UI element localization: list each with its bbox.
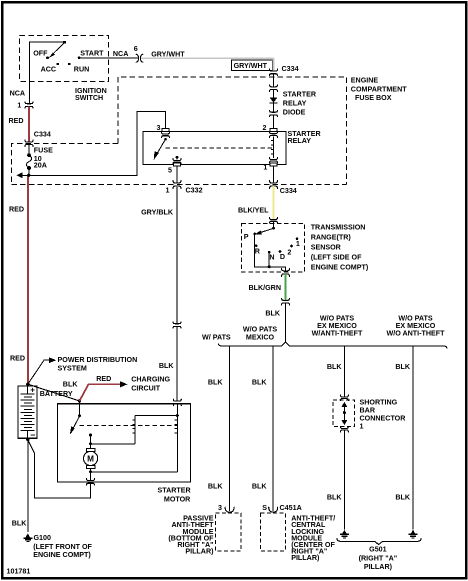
wire branch 3 upper	[327, 346, 345, 397]
ignition switch	[20, 35, 139, 103]
svg-text:BLK/YEL: BLK/YEL	[238, 206, 269, 214]
passive anti-theft module	[215, 513, 241, 551]
svg-text:RUN: RUN	[74, 66, 89, 74]
hold-in winding	[175, 404, 179, 472]
svg-text:2: 2	[287, 248, 291, 256]
wire diode to relay pin 2	[273, 115, 275, 129]
svg-text:G100: G100	[34, 534, 51, 542]
svg-text:CONNECTOR: CONNECTOR	[360, 415, 407, 423]
svg-text:OFF: OFF	[33, 50, 48, 58]
connector pin 3 passive module	[218, 504, 234, 512]
relay contact lever	[154, 138, 167, 160]
label passive anti-theft module	[168, 515, 214, 556]
label starter relay diode	[283, 91, 317, 117]
wire battery feed into solenoid	[79, 399, 81, 416]
wire relay pin1 to C334 bottom	[273, 166, 275, 183]
label TR sensor positions	[244, 233, 300, 261]
svg-text:SHORTING: SHORTING	[360, 398, 398, 406]
wire BLK/YEL	[238, 186, 274, 219]
starter relay box	[143, 132, 286, 165]
connector pin S C451A	[262, 504, 302, 512]
svg-text:BLK: BLK	[12, 519, 28, 527]
relay pin 5 pad	[168, 163, 180, 174]
svg-text:R: R	[255, 248, 261, 256]
svg-text:1: 1	[166, 186, 170, 194]
connector C334 left	[25, 130, 51, 146]
mechanical linkage dashed	[80, 425, 178, 427]
label ground G100	[33, 534, 92, 559]
svg-text:5: 5	[168, 166, 172, 174]
svg-text:SYSTEM: SYSTEM	[58, 364, 87, 372]
label shorting bar connector	[360, 398, 407, 430]
svg-text:RANGE(TR): RANGE(TR)	[311, 234, 352, 242]
svg-text:STARTER: STARTER	[158, 486, 192, 494]
svg-text:PILLAR): PILLAR)	[291, 554, 320, 562]
label anti-theft central locking module	[291, 515, 335, 562]
wire BLK/GRN	[248, 274, 285, 300]
svg-text:GRY/WHT: GRY/WHT	[234, 62, 268, 70]
svg-text:CHARGING: CHARGING	[131, 376, 170, 384]
wire relay pin 5 to C332	[176, 166, 178, 183]
footer number	[7, 567, 31, 575]
engine compartment fuse box	[12, 77, 347, 184]
label starter relay	[288, 130, 322, 145]
arrow power distribution system	[49, 356, 137, 372]
svg-text:1: 1	[263, 164, 267, 172]
svg-text:BLK: BLK	[208, 379, 224, 387]
connector inline GRY/BLK	[173, 322, 181, 328]
shorting bar connector	[333, 400, 354, 426]
svg-text:RELAY: RELAY	[288, 137, 312, 145]
svg-text:3: 3	[157, 124, 161, 132]
svg-text:C334: C334	[282, 65, 299, 73]
svg-text:BLK: BLK	[159, 362, 175, 370]
svg-text:BLK: BLK	[63, 380, 79, 388]
wire GRY/WHT horizontal	[141, 51, 274, 59]
ground G501 right	[409, 530, 418, 539]
label ignition switch	[33, 50, 107, 102]
battery	[18, 386, 37, 438]
wire C334 to diode	[273, 74, 275, 87]
wire RED charging circuit	[80, 375, 121, 401]
connector starter box bottom	[87, 479, 95, 485]
svg-text:BLK: BLK	[327, 493, 343, 501]
svg-text:BLK: BLK	[395, 363, 411, 371]
svg-text:3: 3	[218, 504, 222, 512]
label box GRY/WHT	[232, 60, 273, 71]
svg-text:ENGINE COMPT): ENGINE COMPT)	[311, 264, 369, 272]
svg-text:CIRCUIT: CIRCUIT	[131, 384, 161, 392]
svg-text:20A: 20A	[34, 161, 47, 169]
svg-text:SENSOR: SENSOR	[311, 243, 342, 251]
junction solenoid feed	[78, 399, 81, 402]
svg-text:W/ PATS: W/ PATS	[202, 334, 231, 342]
arrow charging circuit	[120, 376, 170, 393]
connector C334 bottom	[270, 181, 297, 196]
svg-text:BLK: BLK	[395, 493, 411, 501]
label NCA pin 1	[10, 89, 25, 109]
label starter motor	[158, 486, 192, 503]
svg-text:PILLAR): PILLAR)	[364, 563, 393, 571]
wire branch 1 W/PATS	[208, 346, 230, 511]
label battery	[30, 385, 73, 439]
svg-text:C334: C334	[280, 187, 297, 195]
svg-text:START: START	[80, 50, 104, 58]
svg-text:BLK/GRN: BLK/GRN	[248, 284, 281, 292]
connector shorting bar top	[340, 395, 348, 401]
starter relay diode terminal top	[270, 85, 278, 91]
wire winding top link	[135, 415, 177, 417]
starter motor assembly box	[57, 404, 190, 482]
svg-text:NCA: NCA	[113, 50, 128, 58]
svg-text:W/ANTI-THEFT: W/ANTI-THEFT	[312, 330, 363, 338]
wire fuse junction to relay pin 3	[29, 112, 166, 176]
svg-text:ACC: ACC	[41, 66, 56, 74]
svg-text:BLK: BLK	[327, 363, 343, 371]
wire BLK from TR to splice bus	[265, 303, 285, 342]
svg-text:C334: C334	[34, 130, 51, 138]
svg-text:1: 1	[17, 102, 21, 110]
svg-text:MOTOR: MOTOR	[164, 495, 191, 503]
label transmission range sensor	[311, 223, 369, 271]
svg-text:1: 1	[360, 423, 364, 431]
svg-text:RED: RED	[10, 355, 25, 363]
anti-theft central locking module	[260, 513, 285, 551]
svg-text:W/O ANTI-THEFT: W/O ANTI-THEFT	[386, 330, 445, 338]
label W/ PATS	[202, 334, 231, 342]
svg-text:POWER DISTRIBUTION: POWER DISTRIBUTION	[58, 356, 138, 364]
svg-text:(RIGHT "A": (RIGHT "A"	[359, 554, 398, 562]
relay pin 3 pad	[157, 124, 169, 132]
wire battery negative to ground	[12, 438, 30, 532]
svg-text:RELAY: RELAY	[283, 99, 307, 107]
relay coil	[270, 132, 278, 163]
pull-in winding	[132, 416, 135, 444]
svg-text:BLK: BLK	[208, 482, 224, 490]
connector shorting bar bottom	[340, 426, 348, 432]
relay pin 3 terminal	[162, 132, 170, 138]
svg-text:–: –	[30, 429, 35, 439]
connector pin 1 ignition	[25, 102, 33, 108]
wire branch 2	[252, 346, 273, 511]
wire branch 3 lower	[327, 431, 345, 530]
svg-text:ENGINE: ENGINE	[351, 76, 379, 84]
connector 6	[136, 54, 143, 62]
connector starter box top	[173, 399, 181, 405]
svg-text:SWITCH: SWITCH	[75, 94, 103, 102]
starter relay diode terminal bottom	[270, 110, 278, 116]
splice bus	[219, 342, 447, 349]
label W/O PATS MEXICO	[243, 325, 277, 341]
svg-text:GRY/BLK: GRY/BLK	[141, 209, 174, 217]
svg-text:(LEFT SIDE OF: (LEFT SIDE OF	[311, 254, 362, 262]
svg-text:RED: RED	[9, 205, 24, 213]
wire GRY/WHT drop	[273, 58, 275, 71]
junction fuse output	[27, 174, 30, 177]
svg-text:(LEFT FRONT OF: (LEFT FRONT OF	[33, 543, 92, 551]
arrow feed continues left	[16, 172, 28, 178]
fuse 10 20A	[26, 145, 53, 176]
svg-text:D: D	[280, 253, 285, 261]
svg-text:FUSE: FUSE	[34, 146, 53, 154]
wire RED fuse to battery	[9, 177, 28, 384]
wire GRY/BLK	[141, 186, 177, 324]
svg-text:TRANSMISSION: TRANSMISSION	[311, 223, 366, 231]
junction battery positive	[26, 383, 29, 386]
label W/O PATS EX MEXICO W/O ANTI-THEFT	[386, 315, 445, 338]
svg-text:NCA: NCA	[10, 89, 25, 97]
transmission range sensor	[242, 222, 305, 272]
label ground G501	[359, 545, 398, 571]
svg-text:BLK: BLK	[265, 309, 281, 317]
label NCA start wire	[113, 45, 138, 58]
svg-text:M: M	[87, 454, 94, 463]
label W/O PATS EX MEXICO W/ANTI-THEFT	[312, 315, 363, 338]
svg-text:BLK: BLK	[252, 379, 268, 387]
relay pin 5 terminal	[173, 159, 181, 164]
solenoid fixed contact	[89, 434, 92, 449]
relay pin 2 pad	[263, 124, 277, 132]
relay pin 1 pad	[263, 163, 277, 172]
connector inline BLK/GRN	[282, 298, 290, 304]
connector C334 engine box top	[270, 65, 299, 76]
svg-text:STARTER: STARTER	[283, 91, 317, 99]
connector TR sensor top	[270, 217, 278, 223]
svg-text:COMPARTMENT: COMPARTMENT	[351, 85, 407, 93]
wire motor ground loop	[28, 440, 91, 499]
wire pull-in winding bottom	[91, 443, 136, 445]
svg-text:GRY/WHT: GRY/WHT	[151, 51, 185, 59]
ground G100	[23, 533, 32, 542]
wire BLK battery to solenoid	[28, 380, 80, 401]
svg-text:P: P	[244, 233, 249, 241]
wire BLK to starter motor	[159, 326, 177, 401]
wire motor to ground	[89, 468, 177, 480]
diode starter relay diode	[270, 89, 278, 112]
solenoid contact lever	[70, 414, 81, 435]
connector C332	[166, 181, 203, 195]
svg-text:MEXICO: MEXICO	[246, 334, 275, 342]
connector TR sensor bottom	[282, 268, 290, 276]
svg-text:G501: G501	[369, 545, 386, 553]
svg-text:BAR: BAR	[360, 406, 376, 414]
svg-text:ENGINE COMPT): ENGINE COMPT)	[33, 551, 91, 559]
svg-text:FUSE BOX: FUSE BOX	[355, 94, 392, 102]
wire to power distribution	[28, 360, 49, 384]
wire branch 4	[395, 346, 413, 530]
label engine compartment fuse box	[351, 76, 407, 102]
svg-text:BLK: BLK	[252, 482, 268, 490]
svg-text:RED: RED	[96, 375, 111, 383]
wire RED ignition to C334	[9, 107, 30, 142]
brace G501	[337, 538, 421, 544]
ground G501 left	[340, 530, 349, 539]
svg-text:C451A: C451A	[280, 504, 302, 512]
svg-text:RED: RED	[9, 117, 24, 125]
svg-text:DIODE: DIODE	[283, 108, 306, 116]
svg-text:W/O PATS: W/O PATS	[243, 325, 277, 333]
svg-text:6: 6	[134, 45, 138, 53]
svg-text:1: 1	[296, 240, 300, 248]
svg-text:2: 2	[263, 124, 267, 132]
svg-text:N: N	[269, 253, 274, 261]
svg-text:PILLAR): PILLAR)	[185, 547, 214, 555]
svg-text:101781: 101781	[7, 567, 31, 575]
motor M1	[84, 448, 98, 468]
svg-text:C332: C332	[186, 186, 203, 194]
svg-text:S: S	[262, 504, 267, 512]
relay pin 5 contact	[176, 156, 179, 160]
